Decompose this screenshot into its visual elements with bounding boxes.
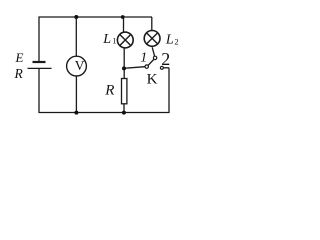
svg-text:R: R — [104, 82, 114, 98]
svg-text:R: R — [14, 66, 24, 81]
svg-text:1: 1 — [112, 36, 116, 46]
svg-text:E: E — [15, 50, 24, 65]
svg-text:1: 1 — [140, 51, 147, 66]
svg-text:2: 2 — [174, 37, 178, 47]
svg-text:V: V — [75, 58, 85, 73]
svg-text:2: 2 — [161, 49, 170, 69]
svg-text:L: L — [102, 32, 111, 47]
svg-text:K: K — [147, 71, 158, 87]
svg-text:L: L — [165, 32, 174, 47]
